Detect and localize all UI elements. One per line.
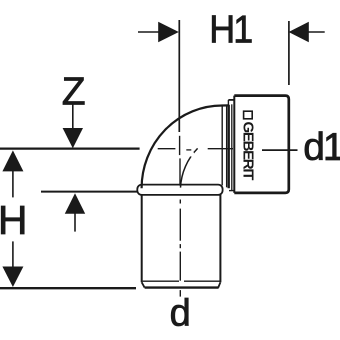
svg-text:H: H <box>0 197 28 243</box>
svg-text:d1: d1 <box>303 126 340 169</box>
svg-text:GEBERIT: GEBERIT <box>239 122 256 181</box>
svg-text:Z: Z <box>62 71 86 114</box>
svg-text:d: d <box>170 293 191 335</box>
svg-text:H1: H1 <box>209 7 252 51</box>
